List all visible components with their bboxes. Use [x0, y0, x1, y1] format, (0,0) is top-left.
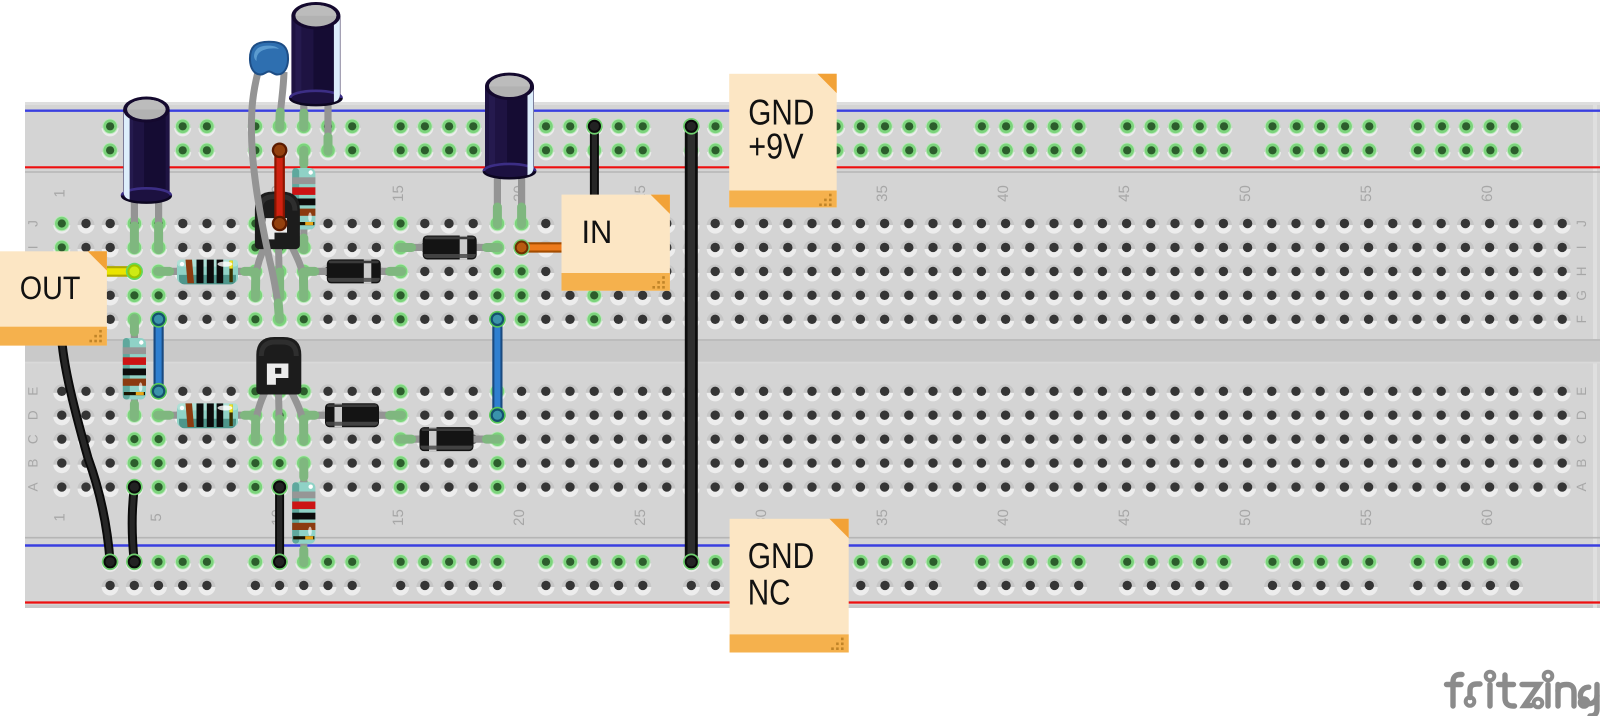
transistor Q1 legs to G9,G10,G11: [255, 244, 266, 293]
wire W3 black GND (F1 under OUT note, curved to bottom rail): [61, 319, 110, 562]
svg-text:J: J: [1574, 220, 1589, 227]
resistor R4 1k (B11 to GND rail): [292, 482, 315, 544]
electrolytic capacitor C3 (J19,J20): [484, 73, 535, 179]
svg-text:J: J: [26, 220, 41, 227]
sticky note GND +9V: [729, 74, 837, 208]
diode D3 leads (D11-D15): [304, 412, 401, 419]
sticky note GND NC: [730, 519, 849, 653]
svg-text:IN: IN: [582, 214, 613, 250]
wire W10 orange IN (I20 to note): [522, 242, 563, 252]
resistor R5 leads (F4 to D4): [131, 319, 138, 340]
svg-text:D: D: [26, 410, 41, 420]
svg-text:G: G: [1574, 290, 1589, 301]
sticky note IN: [562, 195, 670, 291]
svg-text:1: 1: [51, 189, 68, 197]
svg-text:40: 40: [995, 509, 1012, 526]
resistor R4 leads (B11 to bottom rail GND): [300, 463, 307, 484]
breadboard holes: main grid rows F-J: [53, 216, 1570, 330]
center channel groove: [25, 339, 1600, 364]
breadboard holes: bottom power rail: [102, 554, 1524, 595]
svg-text:15: 15: [390, 509, 407, 526]
svg-text:I: I: [1574, 246, 1589, 250]
resistor R1 leads (H5-H9): [159, 268, 256, 275]
diode D4 C15-C19: [420, 427, 474, 451]
breadboard holes: top power rail: [102, 119, 1524, 161]
bottom rail blue line: [25, 544, 1600, 546]
ceramic capacitor C4 right leg (to top rail GND): [281, 72, 285, 112]
svg-text:60: 60: [1479, 185, 1496, 202]
wire W4 black GND (A4 to bottom rail): [132, 487, 134, 562]
column number labels: [51, 185, 1496, 526]
bottom rail red line: [25, 601, 1600, 603]
svg-text:GND: GND: [748, 535, 815, 576]
diode D2 leads (H11-H15): [304, 268, 401, 275]
electrolytic capacitor C2 leads: [300, 92, 307, 116]
svg-text:20: 20: [511, 509, 528, 526]
svg-text:E: E: [26, 387, 41, 396]
electrolytic capacitor C1 leads: [131, 195, 138, 234]
svg-text:35: 35: [874, 185, 891, 202]
svg-text:55: 55: [1358, 509, 1375, 526]
svg-text:OUT: OUT: [20, 270, 81, 306]
row letter labels: [26, 220, 1590, 491]
breadboard holes: main grid rows A-E: [53, 384, 1570, 498]
wire W1 black GND (top rail to J23, end hidden under IN note): [590, 126, 599, 240]
svg-text:D: D: [1574, 410, 1589, 420]
svg-text:A: A: [1574, 482, 1589, 491]
svg-text:40: 40: [995, 185, 1012, 202]
svg-text:A: A: [26, 482, 41, 491]
resistor R2 1k (+9V rail to I11): [292, 168, 315, 230]
wire W5 black GND (A10 to bottom rail): [275, 487, 284, 562]
svg-text:45: 45: [1116, 185, 1133, 202]
svg-text:H: H: [1574, 267, 1589, 277]
svg-text:50: 50: [1237, 185, 1254, 202]
diode D1 I15-I19: [423, 235, 477, 259]
ceramic capacitor C4 body: [250, 42, 288, 75]
svg-text:B: B: [26, 459, 41, 468]
resistor R5 1k (F4 to D4): [123, 338, 146, 400]
transistor Q2 legs to C9,C10,C11: [255, 390, 266, 437]
transistor Q2: [256, 337, 301, 395]
svg-text:F: F: [1574, 315, 1589, 323]
wire W7 blue (F5 to E5): [154, 319, 164, 391]
ceramic capacitor C4 left leg (long, to F10): [251, 72, 279, 312]
sticky note OUT: [0, 251, 107, 345]
breadboard body: [25, 102, 1600, 608]
svg-text:55: 55: [1358, 185, 1375, 202]
resistor R2 leads (top rail +9V to I11): [300, 152, 307, 172]
svg-text:35: 35: [874, 509, 891, 526]
diode D2 H11-H15: [327, 259, 381, 283]
electrolytic capacitor C1 (I4,I5): [122, 97, 171, 203]
fritzing logo: [1447, 672, 1598, 716]
svg-text:45: 45: [1116, 509, 1133, 526]
electrolytic capacitor C2 (rail GND / +9V): [290, 2, 341, 105]
transistor Q1: [255, 192, 300, 250]
svg-text:B: B: [1574, 459, 1589, 468]
svg-text:60: 60: [1479, 509, 1496, 526]
diode D1 leads (I15-I19): [401, 244, 498, 251]
resistor R1 10 ohm H5-H9: [177, 260, 238, 285]
top rail red line: [25, 166, 1600, 168]
wire W8 blue (F19 to D19): [492, 319, 502, 415]
svg-text:25: 25: [632, 509, 649, 526]
resistor R3 leads (D5-D9): [159, 412, 256, 419]
svg-text:15: 15: [390, 185, 407, 202]
wire W6 red +9V (top rail row2 to J10, over Q1): [274, 150, 285, 223]
svg-text:5: 5: [148, 513, 165, 521]
svg-text:50: 50: [1237, 509, 1254, 526]
diode D3 D11-D15: [325, 403, 379, 427]
svg-text:C: C: [26, 434, 41, 444]
electrolytic capacitor C3 leads: [494, 170, 501, 210]
svg-text:E: E: [1574, 387, 1589, 396]
wire W9 yellow OUT (note to H4): [104, 266, 134, 277]
wire W2 black GND (top rail to bottom rail): [685, 126, 698, 562]
svg-text:NC: NC: [748, 571, 791, 612]
diode D4 leads (C15-C19): [401, 436, 498, 443]
resistor R3 10 ohm D5-D9: [177, 403, 238, 428]
top rail blue line: [25, 109, 1600, 111]
svg-text:C: C: [1574, 434, 1589, 444]
svg-text:I: I: [26, 246, 41, 250]
svg-text:+9V: +9V: [748, 125, 803, 166]
svg-text:1: 1: [51, 513, 68, 521]
